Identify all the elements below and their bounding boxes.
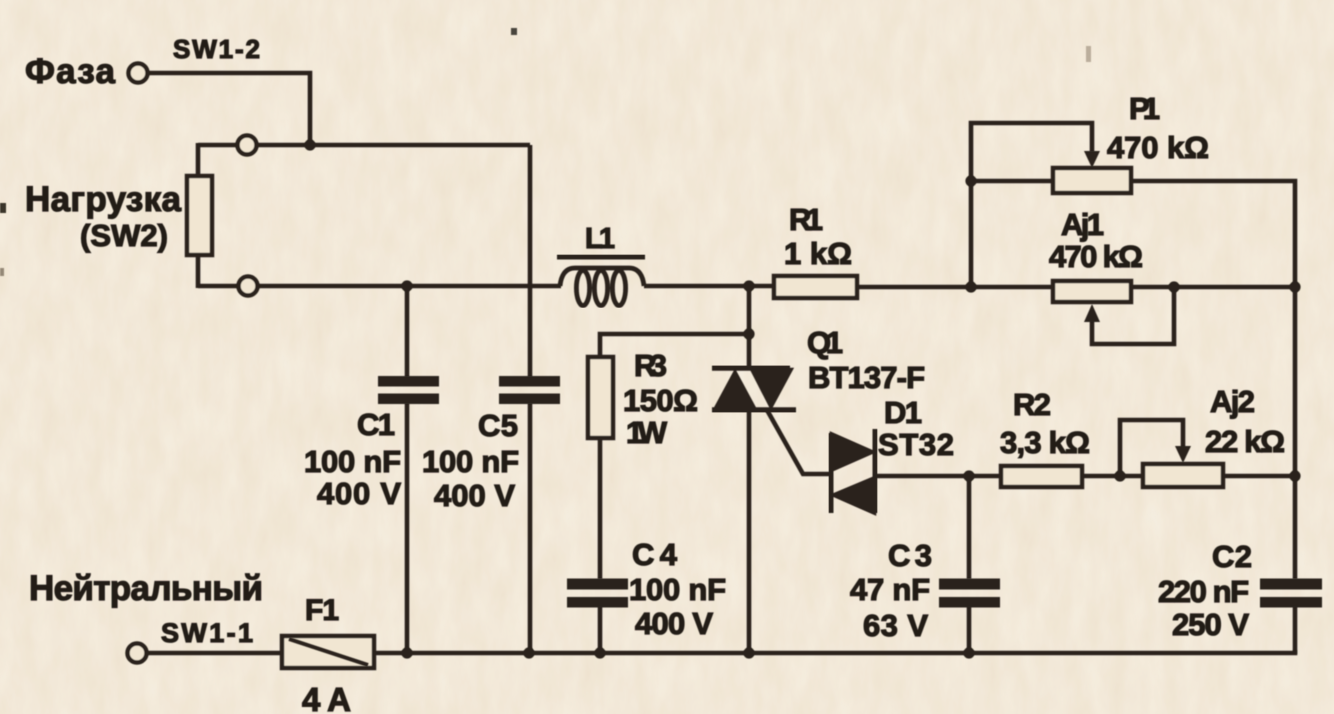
- svg-text:ST32: ST32: [878, 427, 954, 462]
- terminal Фаза: [129, 64, 148, 83]
- wire phase top: [148, 73, 310, 145]
- wire Aj2 right: [1223, 474, 1297, 479]
- inductor L1: [557, 257, 645, 306]
- svg-text:BT137-F: BT137-F: [808, 360, 925, 395]
- node phase junction: [304, 139, 315, 150]
- wire C3 vertical: [967, 476, 972, 579]
- resistor R1: [774, 276, 857, 298]
- wire top horizontal: [198, 143, 530, 148]
- resistor R3: [588, 357, 613, 438]
- wire right rail: [1293, 285, 1298, 579]
- svg-text:P1: P1: [1129, 91, 1160, 126]
- svg-text:Aj1: Aj1: [1061, 207, 1104, 242]
- wire R3 to C4: [598, 438, 603, 579]
- svg-text:470 kΩ: 470 kΩ: [1107, 130, 1209, 165]
- wire Aj1 wiper loop: [1092, 287, 1174, 344]
- svg-text:L1: L1: [585, 223, 615, 255]
- node C3 bottom: [963, 647, 974, 658]
- terminal load bottom: [239, 277, 258, 296]
- svg-text:Q1: Q1: [807, 325, 843, 360]
- wire load loop left: [196, 143, 201, 176]
- svg-text:F1: F1: [305, 594, 339, 627]
- svg-text:220 nF: 220 nF: [1158, 574, 1249, 609]
- node C3 top: [963, 470, 974, 481]
- capacitor C5: [499, 376, 560, 404]
- wire P1 right terminal: [1131, 181, 1295, 287]
- wire P1 wiper loop: [971, 123, 1092, 181]
- svg-text:100 nF: 100 nF: [629, 572, 726, 607]
- node rail Aj2: [1289, 470, 1300, 481]
- node C4 bottom: [594, 647, 605, 658]
- svg-text:Фаза: Фаза: [25, 52, 116, 91]
- wire C4 bottom: [598, 606, 603, 654]
- svg-text:150Ω: 150Ω: [623, 383, 698, 418]
- svg-text:470 kΩ: 470 kΩ: [1049, 239, 1143, 274]
- wire neutral left: [147, 651, 282, 656]
- svg-text:SW1-2: SW1-2: [173, 34, 260, 64]
- svg-text:R2: R2: [1013, 387, 1051, 422]
- node main P1: [965, 281, 976, 292]
- wire R2 to Aj2: [1082, 474, 1143, 479]
- wire Aj2 wiper loop: [1120, 420, 1183, 476]
- wire triac gate: [767, 410, 832, 474]
- potentiometer Aj1 body: [1053, 281, 1131, 302]
- node Aj1 wiper: [1168, 281, 1179, 292]
- svg-text:R1: R1: [789, 202, 823, 237]
- wire R3 top link: [600, 334, 749, 357]
- svg-text:400 V: 400 V: [317, 476, 401, 511]
- wire C1 vertical: [405, 286, 410, 377]
- svg-text:100 nF: 100 nF: [304, 444, 401, 479]
- node triac bottom: [743, 647, 754, 658]
- arrow P1 wiper: [1084, 151, 1100, 168]
- potentiometer P1 body: [1053, 168, 1131, 193]
- svg-text:C1: C1: [357, 407, 395, 442]
- arrow Aj2 wiper: [1175, 446, 1191, 463]
- svg-text:1W: 1W: [626, 415, 668, 450]
- scan speck marks: [0, 28, 1091, 276]
- svg-text:D1: D1: [884, 395, 922, 430]
- svg-text:22 kΩ: 22 kΩ: [1205, 424, 1285, 459]
- wire P1 left vertical: [969, 181, 974, 287]
- potentiometer Aj2 body: [1143, 464, 1223, 487]
- svg-text:4 A: 4 A: [302, 681, 351, 714]
- node C5 bottom: [523, 647, 534, 658]
- svg-text:100 nF: 100 nF: [422, 444, 519, 479]
- svg-text:Нагрузка: Нагрузка: [25, 180, 182, 219]
- terminal load top: [238, 136, 257, 155]
- wire triac cathode down: [747, 410, 752, 654]
- resistor R2: [1001, 466, 1082, 487]
- diac D1: [831, 429, 875, 514]
- node C1 bottom: [401, 647, 412, 658]
- svg-text:C2: C2: [1212, 539, 1252, 574]
- svg-text:Нейтральный: Нейтральный: [29, 569, 263, 608]
- wire triac anode: [747, 286, 752, 369]
- terminal neutral: [128, 644, 147, 663]
- svg-text:3,3 kΩ: 3,3 kΩ: [1000, 425, 1090, 460]
- svg-text:(SW2): (SW2): [80, 218, 168, 253]
- node Aj2 loop: [1114, 470, 1125, 481]
- node C1 top: [401, 280, 412, 291]
- wire main horizontal: [198, 284, 561, 289]
- node R1 left: [743, 280, 754, 291]
- arrow Aj1 wiper: [1084, 304, 1100, 322]
- triac Q1: [712, 368, 796, 410]
- capacitor C2: [1260, 579, 1322, 608]
- svg-text:63 V: 63 V: [863, 608, 928, 643]
- capacitor C3: [939, 579, 1000, 608]
- svg-text:400 V: 400 V: [635, 606, 713, 641]
- svg-text:Aj2: Aj2: [1210, 384, 1255, 419]
- svg-text:C3: C3: [888, 538, 932, 573]
- wire bottom main: [374, 650, 1295, 653]
- node rail Aj1: [1289, 281, 1300, 292]
- svg-text:47 nF: 47 nF: [850, 572, 930, 607]
- svg-text:R3: R3: [634, 348, 667, 383]
- svg-text:250 V: 250 V: [1172, 607, 1249, 642]
- fuse F1 diagonal: [289, 639, 368, 665]
- wire P1 left terminal: [971, 179, 1053, 184]
- capacitor C4: [567, 579, 628, 608]
- node R3 gate link: [743, 328, 754, 339]
- label L1 underline: [557, 255, 645, 260]
- svg-text:C5: C5: [478, 408, 518, 443]
- wire C2 bottom: [1293, 606, 1298, 654]
- node P1 left: [965, 175, 976, 186]
- wire C5 vertical: [528, 145, 533, 377]
- capacitor C1: [378, 376, 439, 404]
- wire diac to C3/R2: [874, 474, 1001, 479]
- fuse F1: [282, 636, 374, 668]
- svg-text:400 V: 400 V: [434, 478, 515, 513]
- resistor load (SW2): [187, 176, 212, 255]
- svg-text:1 kΩ: 1 kΩ: [784, 236, 852, 271]
